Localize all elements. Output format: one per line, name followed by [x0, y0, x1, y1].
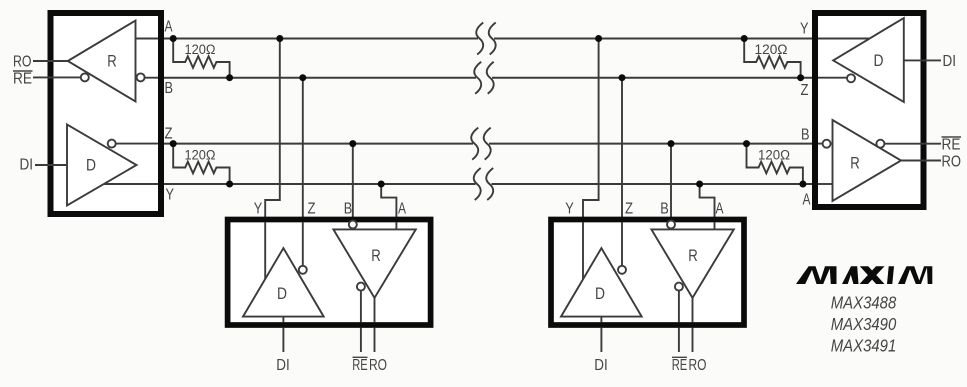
- svg-text:R: R: [688, 247, 698, 265]
- svg-text:120Ω: 120Ω: [185, 42, 216, 57]
- svg-text:A: A: [398, 201, 407, 218]
- svg-text:120Ω: 120Ω: [755, 42, 788, 57]
- svg-text:MAX3490: MAX3490: [831, 314, 897, 334]
- svg-text:D: D: [277, 285, 287, 303]
- svg-text:MAX3488: MAX3488: [831, 293, 897, 313]
- svg-text:RO: RO: [369, 357, 387, 374]
- svg-text:D: D: [86, 157, 96, 175]
- svg-text:R: R: [371, 247, 381, 265]
- svg-text:MAX3491: MAX3491: [831, 336, 897, 356]
- svg-text:A: A: [803, 192, 812, 209]
- svg-text:A: A: [165, 19, 174, 36]
- svg-text:D: D: [874, 52, 884, 70]
- svg-text:RE: RE: [942, 137, 961, 154]
- svg-text:120Ω: 120Ω: [185, 148, 216, 163]
- svg-text:A: A: [716, 201, 725, 218]
- svg-text:Z: Z: [625, 201, 633, 218]
- svg-text:B: B: [344, 201, 353, 218]
- svg-text:RE: RE: [352, 357, 368, 374]
- svg-text:B: B: [165, 80, 174, 97]
- svg-text:R: R: [107, 53, 117, 71]
- svg-text:B: B: [660, 201, 669, 218]
- svg-text:Z: Z: [165, 126, 173, 143]
- svg-text:RO: RO: [942, 154, 962, 171]
- svg-text:DI: DI: [943, 53, 957, 70]
- svg-text:RO: RO: [689, 357, 707, 374]
- svg-text:R: R: [850, 155, 860, 173]
- svg-text:Y: Y: [565, 201, 574, 218]
- svg-text:RO: RO: [13, 54, 32, 71]
- svg-text:D: D: [595, 285, 605, 303]
- svg-text:DI: DI: [276, 357, 290, 374]
- svg-text:DI: DI: [594, 357, 608, 374]
- svg-text:B: B: [801, 127, 810, 144]
- svg-text:RE: RE: [672, 357, 688, 374]
- svg-text:Y: Y: [166, 187, 175, 204]
- svg-text:120Ω: 120Ω: [758, 148, 790, 163]
- svg-text:Z: Z: [801, 82, 809, 99]
- svg-text:DI: DI: [20, 157, 34, 174]
- svg-text:Y: Y: [800, 21, 809, 38]
- svg-text:RE: RE: [13, 71, 32, 88]
- svg-text:Y: Y: [254, 201, 263, 218]
- svg-text:Z: Z: [308, 201, 316, 218]
